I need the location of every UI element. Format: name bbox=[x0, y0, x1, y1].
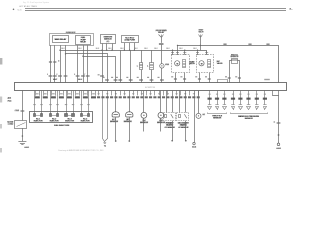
wire ignition switch pins bbox=[102, 44, 104, 83]
node bus Y45 left corner bbox=[177, 45, 178, 46]
sensor B1 circle bbox=[160, 64, 164, 68]
connector C1 ticks bbox=[49, 61, 52, 63]
sensor CKP drop bbox=[160, 91, 162, 113]
sensor B1 drop bbox=[161, 50, 163, 64]
noise condenser box bbox=[15, 121, 27, 129]
svg-text:INJECTOR: INJECTOR bbox=[81, 121, 90, 123]
capacitor C1 bbox=[159, 43, 164, 45]
wire top rail upper bbox=[25, 8, 286, 10]
svg-text:SENSOR: SENSOR bbox=[157, 122, 166, 124]
svg-text:INJECTOR: INJECTOR bbox=[50, 121, 59, 123]
svg-text:COND: COND bbox=[8, 124, 14, 126]
label wire colors on Y45 bbox=[223, 44, 226, 45]
svg-text:G101: G101 bbox=[24, 147, 29, 149]
label connector numbers right bbox=[171, 76, 173, 77]
terminal plug 8 bbox=[263, 104, 266, 106]
svg-text:BLU: BLU bbox=[78, 79, 82, 81]
wire sensor feed 1 bbox=[209, 91, 211, 105]
svg-text:FUEL INJECTORS: FUEL INJECTORS bbox=[54, 125, 70, 127]
scan artifact 1 bbox=[0, 58, 2, 65]
sensor ECT drop bbox=[115, 91, 117, 113]
terminal T9 bbox=[277, 143, 280, 146]
svg-text:G101: G101 bbox=[276, 148, 281, 150]
wire fuse pins bbox=[124, 43, 126, 50]
wire left ground drop bbox=[22, 91, 24, 121]
solenoid SV2 coil bbox=[208, 60, 211, 68]
connector C9 tick bbox=[277, 122, 281, 124]
svg-text:SENSOR: SENSOR bbox=[230, 57, 239, 59]
sensor R1 body bbox=[232, 59, 238, 64]
coil L1 bbox=[140, 63, 143, 70]
svg-text:INJECTOR: INJECTOR bbox=[65, 121, 74, 123]
wire pin A0 bbox=[50, 45, 52, 82]
svg-text:G2: G2 bbox=[202, 114, 205, 116]
wire A2 drop bbox=[200, 38, 202, 51]
svg-text:O2 SENSOR: O2 SENSOR bbox=[164, 127, 175, 129]
svg-text:No.31: No.31 bbox=[17, 9, 21, 11]
injector No.3 bbox=[65, 114, 75, 123]
terminal plug 3 bbox=[223, 104, 226, 106]
svg-text:SENSOR: SENSOR bbox=[124, 122, 133, 124]
svg-text:Courtesy of AMERICAN HONDA MOT: Courtesy of AMERICAN HONDA MOTOR CO., IN… bbox=[58, 149, 105, 152]
svg-text:HOT AT ALL TIMES: HOT AT ALL TIMES bbox=[19, 5, 37, 8]
wire bus Y56 bbox=[84, 57, 116, 83]
svg-text:RELAY: RELAY bbox=[158, 31, 165, 34]
sensor TDC drop bbox=[143, 91, 145, 113]
wire sensor feed 6 bbox=[248, 91, 250, 105]
svg-text:L: L bbox=[137, 66, 138, 68]
wire pin B2 corner to Y56 bbox=[83, 45, 85, 82]
wire ECT lead bbox=[115, 117, 117, 140]
box ECM fuse bbox=[122, 36, 139, 43]
injector assembly box bbox=[30, 112, 93, 123]
solenoid SV2 motor bbox=[199, 61, 204, 66]
svg-text:Fig. 21: Fuel Injection System: Fig. 21: Fuel Injection System bbox=[23, 1, 50, 4]
svg-text:A23: A23 bbox=[8, 97, 11, 100]
terminal plug 5 bbox=[239, 104, 242, 106]
wire SV2 legs to ECM bbox=[199, 73, 201, 83]
terminal plug 4 bbox=[231, 104, 234, 106]
scan artifact 4 bbox=[0, 148, 2, 153]
connector tick ign pin bbox=[100, 75, 104, 77]
wire pin A1 bbox=[54, 45, 56, 82]
box ignition switch bbox=[101, 35, 116, 44]
svg-text:(C): (C) bbox=[106, 41, 109, 43]
ECM notch right bbox=[273, 91, 279, 96]
svg-text:SENSOR: SENSOR bbox=[245, 118, 254, 120]
svg-text:MAIN RELAY: MAIN RELAY bbox=[55, 38, 67, 41]
node O2S dot bbox=[171, 140, 173, 142]
connector ticks solenoid pins bbox=[171, 52, 174, 54]
sensor CKP body bbox=[158, 112, 164, 118]
wire pin B3 bbox=[87, 45, 89, 82]
node A2 junction bbox=[200, 45, 201, 46]
svg-text:T1: T1 bbox=[104, 146, 106, 148]
wire sensor feed 4 bbox=[233, 91, 235, 105]
scan artifact 3 bbox=[0, 124, 2, 129]
bracket sensor group 1 bbox=[208, 113, 227, 114]
sensor R1 legs bbox=[230, 61, 232, 83]
fuse/relay box outline bbox=[50, 34, 94, 46]
wire ground lead bbox=[22, 128, 24, 141]
wire sensor feed 2 bbox=[217, 91, 219, 105]
injector No.4 bbox=[81, 114, 91, 123]
wire O2S2 leads bbox=[179, 91, 181, 113]
wire sensor feed 3 bbox=[224, 91, 226, 105]
injector No.2 bbox=[50, 114, 60, 123]
svg-text:VALVE: VALVE bbox=[189, 63, 196, 66]
wire top rail lower bbox=[25, 10, 286, 12]
wire IAT lead bbox=[129, 117, 131, 140]
terminal service check bbox=[193, 142, 195, 144]
svg-text:PG1: PG1 bbox=[8, 101, 12, 103]
ground G1 bbox=[18, 141, 26, 143]
solenoid valve SV2 box bbox=[197, 55, 214, 73]
wire sensor feed 7 bbox=[256, 91, 258, 105]
wire TDC lead bbox=[143, 118, 145, 131]
wire A1 drop bbox=[161, 38, 163, 43]
svg-text:TACH: TACH bbox=[198, 31, 204, 34]
scan artifact 2 bbox=[0, 97, 2, 103]
svg-text:L: L bbox=[147, 66, 148, 68]
sensor IAT drop bbox=[129, 91, 131, 113]
solenoid SV1 coil bbox=[183, 60, 186, 68]
wire injector leads bbox=[34, 91, 36, 114]
svg-text:INJECTOR: INJECTOR bbox=[34, 121, 43, 123]
label C132 bbox=[264, 79, 270, 80]
label injector wire colors bbox=[35, 96, 40, 98]
wire ground sensor drop bbox=[198, 91, 200, 114]
label connector numbers mid bbox=[103, 77, 105, 78]
svg-text:RELAY: RELAY bbox=[80, 41, 86, 44]
wire sensor feed 8 bbox=[264, 91, 266, 105]
wire pin B1 bbox=[77, 45, 79, 82]
wire pin A2 corner to Y50 bbox=[60, 45, 62, 82]
svg-text:C101: C101 bbox=[14, 111, 19, 113]
wire bus Y54 bbox=[66, 54, 108, 83]
connector ticks bus corners bbox=[105, 79, 109, 81]
sensor O2S primary box bbox=[164, 113, 176, 121]
terminal ground sensor bbox=[196, 113, 201, 118]
wire service check lead bbox=[194, 91, 196, 143]
terminal plug 1 bbox=[208, 104, 211, 106]
wire main bus Y50 bbox=[61, 51, 207, 55]
wire sensor feed 5 bbox=[240, 91, 242, 105]
wire CKP lead bbox=[160, 118, 162, 131]
svg-text:SENSOR: SENSOR bbox=[213, 118, 222, 120]
svg-text:SENSOR: SENSOR bbox=[140, 122, 149, 124]
solenoid SV1 motor bbox=[175, 61, 180, 66]
relay K2 FUEL PUMP RELAY bbox=[76, 36, 91, 45]
relay K1 MAIN RELAY bbox=[53, 36, 69, 43]
coil L1 drop bbox=[141, 50, 143, 62]
sensor IAT body bbox=[126, 112, 133, 117]
connector C11 ticks bbox=[21, 110, 25, 112]
svg-text:VALVE: VALVE bbox=[217, 62, 224, 65]
sensor ECT body bbox=[112, 112, 119, 117]
terminal plug 6 bbox=[247, 104, 250, 106]
node O2S2 dot bbox=[185, 140, 187, 142]
wire pin A3 corner to Y54 bbox=[65, 45, 67, 82]
sensor O2S secondary box bbox=[177, 113, 189, 121]
bracket sensor group 2 bbox=[231, 113, 268, 114]
connector row above ECM left bbox=[49, 75, 53, 77]
wire solenoid feed corners bbox=[172, 50, 174, 54]
wire O2S secondary lead bbox=[185, 121, 187, 140]
wire O2S primary lead bbox=[172, 121, 174, 140]
coil L2 bbox=[150, 63, 154, 70]
wire right harness vertical bbox=[278, 95, 280, 143]
wire injector pin stubs bbox=[35, 91, 37, 96]
wire A1 to bus bbox=[161, 45, 163, 51]
node ECT dot bbox=[115, 140, 117, 142]
terminal plug 2 bbox=[215, 104, 218, 106]
terminal plug 7 bbox=[255, 104, 258, 106]
node ground dot bbox=[22, 135, 24, 137]
wire drop D1 bbox=[120, 50, 122, 82]
wire drop D2 bbox=[130, 50, 132, 82]
wire O2S leads bbox=[166, 91, 168, 113]
antenna symbol A1 bbox=[159, 35, 164, 38]
svg-text:O2 SENSOR: O2 SENSOR bbox=[178, 127, 189, 129]
injector No.1 bbox=[34, 114, 44, 123]
ECM pin stubs middle section bbox=[98, 91, 100, 96]
svg-text:ECM/PCM: ECM/PCM bbox=[145, 87, 155, 89]
antenna symbol A2 bbox=[199, 35, 203, 38]
node IAT dot bbox=[128, 140, 130, 142]
node battery feed dot bbox=[13, 9, 15, 11]
solenoid valve SV1 box bbox=[172, 55, 190, 73]
jumper J1 on ECM bbox=[218, 80, 228, 83]
node right harness dot bbox=[278, 134, 280, 136]
wire bus Y45 to right edge bbox=[178, 46, 279, 83]
svg-text:SENSOR: SENSOR bbox=[110, 122, 119, 124]
svg-text:4: 4 bbox=[58, 61, 59, 63]
wire SV1 legs to ECM bbox=[175, 73, 177, 83]
coil L2 drop bbox=[151, 50, 153, 62]
connector funnel tick bbox=[103, 142, 106, 144]
svg-text:E...: E... bbox=[289, 9, 292, 11]
ECM/PCM main box bbox=[15, 83, 287, 91]
sensor TDC body bbox=[141, 112, 147, 118]
svg-text:(15A) FUSE: (15A) FUSE bbox=[124, 39, 135, 42]
wire funnel shield bbox=[103, 91, 108, 142]
